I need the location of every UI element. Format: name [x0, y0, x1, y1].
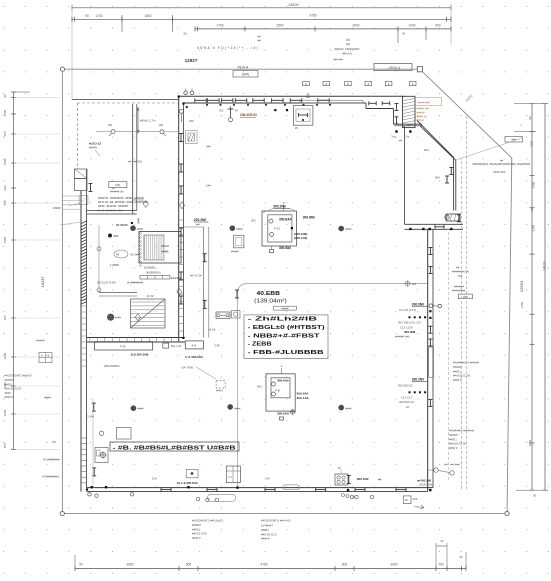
- svg-text:3000: 3000: [352, 23, 359, 27]
- svg-text:3000: 3000: [528, 439, 532, 446]
- svg-text:####: ####: [345, 227, 352, 231]
- svg-text:90: 90: [528, 116, 532, 120]
- EV room box: [139, 232, 181, 264]
- svg-text:1500: 1500: [3, 236, 7, 243]
- right dimension inner line: [531, 104, 533, 491]
- svg-text:#$%& 1,7m: #$%& 1,7m: [140, 119, 156, 123]
- svg-text:C13 C13b: C13 C13b: [400, 325, 413, 329]
- chamfer vertical wall: [453, 157, 455, 210]
- svg-text:##414: ##414: [216, 390, 224, 393]
- svg-text:2150: 2150: [520, 301, 524, 308]
- svg-text:15#: 15#: [152, 477, 157, 481]
- FB barbell box: [216, 312, 230, 318]
- top wall outer line: [179, 95, 404, 97]
- ceiling drop symbol: [230, 107, 232, 118]
- panel2 inner box: [271, 378, 290, 398]
- svg-text:90: 90: [3, 94, 7, 98]
- svg-text:#### #: #### #: [449, 446, 458, 450]
- svg-text:5M: 5M: [458, 274, 463, 278]
- site boundary corner circle bottom-left: [60, 511, 64, 515]
- signboard small box: [274, 306, 297, 310]
- chamfer wall diagonal: [417, 121, 454, 158]
- svg-text:300.0N6 NC: 300.0N6 NC: [399, 400, 414, 404]
- svg-text:P#: P#: [52, 440, 56, 444]
- svg-text:300: 300: [3, 315, 7, 320]
- svg-text:500: 500: [3, 131, 7, 136]
- top wall step2: [393, 109, 395, 125]
- svg-text:90: 90: [79, 562, 83, 566]
- svg-text:60#: 60#: [424, 148, 429, 152]
- top wall window strip: [300, 100, 363, 103]
- svg-text:- EBGL±0 (#HTBST): - EBGL±0 (#HTBST): [248, 325, 325, 331]
- panel1 inner box: [268, 215, 292, 242]
- svg-text:Trta: Trta: [391, 136, 396, 139]
- bottom capsules: [207, 494, 235, 501]
- svg-text:#-# #### ##: #-# #### ##: [97, 209, 124, 213]
- right wall fixtures: [429, 326, 431, 333]
- svg-text:- FBB-#JLUBBBB: - FBB-#JLUBBBB: [248, 350, 324, 356]
- wall-mounted equipment box top: [293, 106, 313, 126]
- EV door track circles: [140, 233, 142, 235]
- svg-text:#4(302#00P.2 ##(16a0C): #4(302#00P.2 ##(16a0C): [192, 519, 223, 523]
- svg-text:900: 900: [435, 23, 441, 27]
- svg-text:1000: 1000: [408, 23, 415, 27]
- top dimension tier3: [195, 28, 451, 30]
- svg-text:300.2N0: 300.2N0: [412, 377, 424, 381]
- svg-text:###B: ###B: [161, 250, 168, 254]
- svg-text:- #B. #B#B5#L#B#BST U#B#B: - #B. #B#B5#L#B#BST U#B#B: [113, 445, 236, 451]
- leader lines: [262, 209, 273, 214]
- svg-text:#####: #####: [231, 249, 239, 253]
- svg-text:13500: 13500: [288, 3, 299, 7]
- svg-text:#4(303000P.2 ##(A00: #4(303000P.2 ##(A00: [5, 374, 32, 378]
- svg-text:(200.1A6): (200.1A6): [294, 236, 307, 240]
- svg-text:200.2N0: 200.2N0: [194, 218, 207, 222]
- bottom wall fixtures: [161, 489, 171, 491]
- speaker square box: [234, 235, 244, 248]
- bottom wall small circles: [88, 493, 91, 496]
- phone circles row upper: [130, 225, 136, 231]
- svg-text:300.0N0 9C: 300.0N0 9C: [398, 383, 413, 387]
- svg-text:AC:13h (C13): AC:13h (C13): [399, 308, 416, 312]
- vertical fixtures right step area: [396, 104, 398, 111]
- svg-text:90: 90: [183, 32, 187, 36]
- svg-text:F·B: F·B: [120, 345, 125, 349]
- bottom note box: [110, 442, 239, 451]
- svg-text:500: 500: [186, 562, 192, 566]
- svg-text:KG####(##): KG####(##): [42, 475, 59, 479]
- svg-text:500: 500: [3, 200, 7, 205]
- inner wall line to chamfer: [395, 123, 423, 125]
- svg-text:14100: 14100: [543, 261, 547, 271]
- panel1 outer box: [262, 211, 296, 246]
- wall equipment box corridor: [186, 131, 198, 144]
- svg-text:#### #: #### #: [261, 537, 270, 541]
- svg-text:3###: 3###: [137, 218, 141, 224]
- svg-text:300: 300: [3, 185, 7, 190]
- svg-text:####: ####: [234, 407, 241, 411]
- svg-text:####: ####: [137, 407, 144, 411]
- top wall inner line: [184, 102, 367, 104]
- svg-text:×: ×: [281, 365, 283, 369]
- svg-text:1000: 1000: [3, 409, 7, 416]
- svg-text:⊙#: ⊙#: [352, 495, 356, 499]
- svg-text:600: 600: [257, 384, 262, 388]
- svg-text:16137: 16137: [40, 276, 45, 288]
- to-B box: [185, 341, 203, 349]
- svg-text:41.5#: 41.5#: [147, 294, 154, 298]
- svg-text:#1.5#: #1.5#: [208, 328, 215, 332]
- svg-text:1500: 1500: [3, 158, 7, 165]
- plumbing riser line: [98, 225, 100, 292]
- svg-text:#06: #06: [413, 497, 418, 501]
- svg-text:450: 450: [3, 443, 7, 448]
- svg-text:#### ###: #### ###: [418, 100, 430, 104]
- svg-text:#4(300000P11 ##A-#15: #4(300000P11 ##A-#15: [261, 519, 291, 523]
- svg-text:205A04(3#): 205A04(3#): [419, 483, 433, 487]
- svg-text:#13-# ###-## ####: #13-# ###-## ####: [98, 200, 149, 204]
- svg-text:C3B: C3B: [214, 344, 219, 348]
- svg-text:####: ####: [44, 396, 51, 400]
- chamfer wall junction box: [446, 214, 460, 221]
- partition below EV: [99, 292, 137, 294]
- svg-text:(##): (##): [115, 183, 120, 187]
- emergency phone filled circle: [107, 314, 114, 321]
- svg-text:16ⁿ####7: 16ⁿ####7: [261, 524, 273, 528]
- svg-text:#### #: #### #: [5, 395, 14, 399]
- svg-text:300.1N0: 300.1N0: [357, 477, 369, 481]
- svg-text:300.6A0: 300.6A0: [277, 411, 289, 415]
- B small box: [163, 343, 169, 348]
- svg-text:1000: 1000: [3, 109, 7, 116]
- canopy dashed lines: [461, 161, 463, 490]
- svg-text:BAL-4 ##: BAL-4 ##: [171, 345, 182, 348]
- panel2 outer box: [266, 374, 295, 411]
- svg-text:## 42.5#: ## 42.5#: [190, 274, 202, 278]
- left wall top boxes: [75, 169, 88, 179]
- site boundary right: [507, 158, 512, 511]
- svg-text:200.2N0 6#: 200.2N0 6#: [240, 113, 257, 117]
- svg-text:###### (##): ###### (##): [395, 335, 410, 339]
- svg-text:#####: #####: [36, 339, 45, 343]
- svg-text:C:3 300.6A0: C:3 300.6A0: [185, 355, 203, 359]
- top wall light fixtures: [195, 99, 207, 101]
- svg-text:###: ###: [412, 282, 417, 286]
- svg-text:×: ×: [519, 124, 523, 126]
- svg-text:3##: 3##: [189, 119, 194, 123]
- svg-text:300: 300: [251, 219, 256, 223]
- svg-text:########: ########: [452, 289, 466, 293]
- svg-text:3000: 3000: [390, 562, 397, 566]
- svg-text:40.EBB: 40.EBB: [257, 291, 281, 297]
- svg-text:###### (#): ###### (#): [110, 190, 124, 194]
- manhole box row: [303, 81, 310, 85]
- svg-text:#·B: #·B: [192, 344, 197, 348]
- svg-text:3500: 3500: [3, 352, 7, 359]
- svg-text:300.0N0: 300.0N0: [303, 215, 315, 219]
- left entry steps: [62, 195, 81, 197]
- svg-text:90: 90: [85, 14, 89, 18]
- svg-text:1500: 1500: [530, 140, 534, 147]
- site boundary corner circle top-left: [60, 67, 64, 71]
- svg-text:300.6A0: 300.6A0: [279, 246, 291, 250]
- site boundary bottom: [64, 513, 504, 515]
- toilet labels: [108, 234, 112, 238]
- svg-text:Cat: Cat: [406, 136, 410, 139]
- top wall end circles: [184, 91, 188, 95]
- left wall hatch: [81, 221, 87, 224]
- svg-text:## 39.5#: ## 39.5#: [116, 223, 128, 227]
- site boundary corner square top-right: [417, 67, 422, 72]
- room block bottom wall: [87, 337, 186, 339]
- svg-text:300.6A#: 300.6A#: [279, 218, 292, 222]
- svg-text:300.2N0: 300.2N0: [273, 205, 286, 209]
- right step wall horizontal: [405, 223, 464, 225]
- site boundary left: [61, 71, 63, 511]
- step wall fixtures: [409, 228, 411, 230]
- svg-text:####: ####: [115, 316, 121, 320]
- scope-of-work list box: [244, 315, 328, 359]
- svg-text:##: ##: [378, 477, 382, 481]
- svg-text:ST.(1+27.5-W): ST.(1+27.5-W): [97, 280, 116, 284]
- right dimension outer line 14100: [544, 104, 546, 491]
- svg-text:####: ####: [345, 407, 352, 411]
- svg-text:## #2# ###: ## #2# ###: [98, 204, 129, 208]
- svg-text:#####: #####: [53, 206, 61, 210]
- svg-text:300.6A#: 300.6A#: [277, 378, 289, 382]
- svg-text:300.1N6 (C3) C13: 300.1N6 (C3) C13: [398, 321, 421, 325]
- register boxes: [226, 466, 240, 483]
- svg-text:#### #: #### #: [453, 378, 462, 382]
- svg-text:## (##-00): ## (##-00): [128, 160, 142, 164]
- svg-text:####: ####: [236, 227, 243, 231]
- svg-text:E3-E3W: E3-E3W: [171, 276, 181, 280]
- corridor left wall double: [132, 104, 134, 214]
- down-light circles at corridor mouth: [111, 130, 115, 134]
- svg-text:#$%&'( FB(#)(###): #$%&'( FB(#)(###): [335, 47, 360, 51]
- svg-text:(B-000000-0): (B-000000-0): [146, 271, 161, 274]
- corridor wall fixtures: [179, 109, 183, 113]
- phone circles row lower: [131, 405, 137, 411]
- svg-text:90: 90: [530, 208, 534, 212]
- corridor bottom wall: [87, 210, 137, 212]
- svg-text:(A.#####(##): (A.#####(##): [127, 281, 143, 285]
- sliding door track: [140, 276, 170, 280]
- svg-text:90: 90: [533, 494, 537, 498]
- left dim extension lines: [14, 97, 61, 99]
- svg-text:43: 43: [116, 253, 120, 257]
- svg-text:3590: 3590: [126, 562, 133, 566]
- svg-text:-00: -00: [234, 109, 238, 113]
- top dimension tier1 13500: [72, 7, 451, 9]
- corridor width arrow 1700: [137, 110, 139, 132]
- svg-text:####(#) #(#)##(##)##-#(###): ####(#) #(#)##(##)##-#(###): [472, 162, 530, 166]
- mid column fixtures: [236, 290, 238, 298]
- svg-text:1700: 1700: [216, 23, 223, 27]
- svg-text:- NBB#+#-#FBST: - NBB#+#-#FBST: [248, 333, 321, 339]
- svg-text:⌀=300.1N6: ⌀=300.1N6: [417, 479, 431, 483]
- svg-text:1-0: 1-0: [228, 475, 232, 479]
- svg-text:##3-4: ##3-4: [417, 118, 425, 122]
- svg-text:(3#): (3#): [108, 123, 113, 127]
- svg-text:90#: 90#: [435, 176, 440, 180]
- svg-text:(###): (###): [242, 73, 249, 77]
- svg-text:1##: 1##: [206, 184, 211, 188]
- site boundary corner circle bottom-right: [505, 511, 509, 515]
- svg-text:(###:#####): (###:#####): [104, 364, 120, 368]
- svg-text:12927: 12927: [185, 58, 198, 63]
- svg-text:2500: 2500: [276, 23, 283, 27]
- svg-text:## : ##-4##: ## : ##-4##: [444, 462, 460, 466]
- svg-text:10-1-9 300.6A0: 10-1-9 300.6A0: [177, 481, 198, 485]
- svg-text:9750: 9750: [309, 14, 316, 18]
- corridor right wall double: [178, 96, 180, 342]
- tenant boundary rounded line: [238, 284, 428, 488]
- svg-text:(139.04m²): (139.04m²): [254, 299, 287, 305]
- svg-text:###: ###: [114, 234, 119, 238]
- svg-text:##(+M): ##(+M): [342, 52, 352, 56]
- top wall step1: [365, 103, 367, 109]
- svg-text:###: ###: [463, 295, 468, 299]
- svg-text:1700: 1700: [95, 14, 102, 18]
- svg-text:1800: 1800: [144, 14, 151, 18]
- svg-text:####: ####: [137, 227, 144, 231]
- svg-text:4750: 4750: [260, 562, 267, 566]
- svg-text:300.0N6: 300.0N6: [404, 330, 416, 334]
- wc legend box: [39, 353, 52, 363]
- svg-text:##: ##: [257, 39, 261, 43]
- svg-text:##(#6): ##(#6): [89, 146, 97, 150]
- svg-text:2350: 2350: [532, 224, 536, 231]
- F.B long box: [95, 342, 153, 350]
- svg-text:#4(#####1.9 ###(##): #4(#####1.9 ###(##): [453, 361, 479, 365]
- svg-text:1.####: 1.####: [110, 263, 119, 267]
- svg-text:12553: 12553: [519, 280, 524, 292]
- svg-text:##3 #### ## 2##: ##3 #### ## 2##: [98, 196, 145, 200]
- svg-text:KG##$####: KG##$####: [43, 458, 60, 462]
- svg-text:##: ##: [346, 38, 350, 42]
- svg-text:90: 90: [402, 32, 406, 36]
- left wall door: [79, 196, 88, 205]
- svg-text:P-10: P-10: [274, 227, 280, 231]
- svg-text:(0-00000): (0-00000): [144, 266, 155, 269]
- svg-text:### ###: ### ###: [333, 58, 343, 62]
- bottom dimension line: [75, 568, 466, 570]
- left wall vertical double: [80, 191, 82, 492]
- svg-text:NA-7690: NA-7690: [182, 366, 194, 370]
- top-right hatched wall block: [403, 96, 416, 127]
- svg-text:#$%#: #$%#: [161, 244, 169, 248]
- svg-text:300.0N0: 300.0N0: [412, 302, 424, 306]
- svg-text:- ZEBB: - ZEBB: [248, 342, 272, 348]
- svg-text:90: 90: [459, 555, 463, 559]
- top wall junction dots: [206, 104, 208, 106]
- svg-text:#### #: #### #: [192, 536, 201, 540]
- chamfer wall fixtures: [450, 167, 452, 174]
- svg-text:300: 300: [219, 109, 224, 113]
- kitchen outlet box bottom: [335, 474, 348, 485]
- door diamonds: [143, 201, 148, 208]
- exhaust route box: [374, 64, 412, 71]
- svg-text:- Zh#Lh2#IB: - Zh#Lh2#IB: [248, 317, 318, 323]
- left pipe boxes: [117, 428, 132, 440]
- svg-text:C13 C13: C13 C13: [401, 395, 412, 399]
- site boundary chamfer diagonal 5000: [422, 72, 512, 158]
- site boundary top: [65, 68, 418, 70]
- inner partition pair: [203, 227, 205, 338]
- bottom wall double: [87, 487, 434, 489]
- svg-text:16#: 16#: [265, 477, 270, 481]
- svg-text:##: ##: [346, 43, 350, 47]
- svg-text:2400: 2400: [532, 181, 536, 188]
- svg-text:P-B: P-B: [275, 388, 280, 392]
- tan label box: [416, 98, 442, 106]
- svg-text:42.5##>: 42.5##>: [130, 253, 141, 257]
- svg-text:#$%&'# FD(+2#(*+,-./#): #$%&'# FD(+2#(*+,-./#): [197, 46, 259, 50]
- svg-text:#####: #####: [281, 306, 289, 310]
- exterior box: [458, 294, 472, 299]
- svg-text:#### 4##: #### 4##: [493, 170, 505, 174]
- top dimension tier2: [72, 18, 451, 20]
- svg-text:750: 750: [438, 562, 444, 566]
- smoke vent dashed box: [216, 381, 225, 388]
- svg-text:D:3 300.1N6: D:3 300.1N6: [131, 353, 149, 357]
- left dimension line: [13, 92, 15, 450]
- svg-text:500: 500: [342, 562, 348, 566]
- right wall vertical double: [427, 229, 429, 491]
- svg-text:3##: 3##: [206, 145, 211, 149]
- corridor top wall: [72, 99, 179, 101]
- svg-text:(3#): (3#): [159, 123, 164, 127]
- smoke window box: [505, 137, 523, 143]
- stair: [131, 299, 166, 328]
- svg-text:30A.1A0: 30A.1A0: [297, 396, 309, 400]
